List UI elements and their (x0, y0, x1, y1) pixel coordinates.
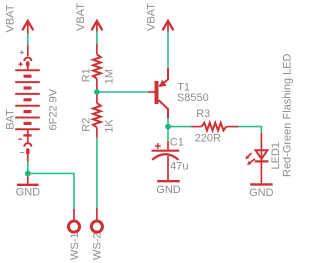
svg-text:S8550: S8550 (177, 92, 209, 104)
svg-text:VBAT: VBAT (145, 3, 157, 31)
svg-text:220R: 220R (195, 133, 221, 145)
svg-text:BAT: BAT (4, 109, 16, 130)
svg-text:R1: R1 (81, 68, 93, 82)
svg-text:R2: R2 (81, 118, 93, 132)
svg-text:WS-2: WS-2 (92, 233, 104, 261)
svg-text:47u: 47u (170, 160, 188, 172)
svg-text:R3: R3 (196, 108, 210, 120)
svg-text:GND: GND (16, 187, 41, 199)
svg-text:GND: GND (156, 184, 181, 196)
svg-text:LED1: LED1 (270, 142, 282, 170)
svg-text:6F22 9V: 6F22 9V (48, 88, 60, 130)
svg-text:VBAT: VBAT (4, 4, 16, 32)
svg-text:GND: GND (249, 187, 274, 199)
svg-text:C1: C1 (170, 137, 184, 149)
svg-text:VBAT: VBAT (75, 3, 87, 31)
svg-text:WS-1: WS-1 (69, 233, 81, 261)
svg-text:Red-Green Flashing LED: Red-Green Flashing LED (281, 53, 293, 177)
svg-text:1K: 1K (103, 119, 115, 133)
svg-text:1M: 1M (103, 69, 115, 84)
